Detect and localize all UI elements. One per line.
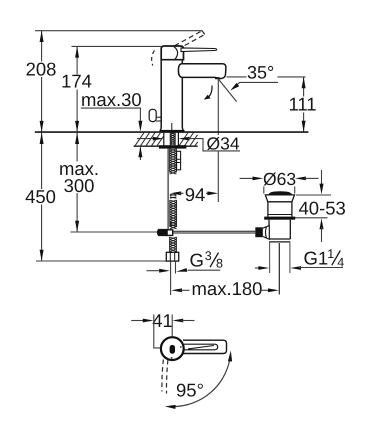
- svg-text:Ø63: Ø63: [263, 169, 296, 189]
- flexible hose braid lower: [170, 237, 177, 254]
- wire 41 right extension: [171, 315, 173, 337]
- top view rotated spout dashed: [162, 360, 163, 392]
- faucet base flange: [160, 130, 185, 132]
- svg-text:max.30: max.30: [81, 89, 142, 110]
- pull rod thread marks above junction: [170, 222, 176, 226]
- dimension 40-53 top arrow: [321, 170, 323, 186]
- svg-text:450: 450: [25, 186, 56, 207]
- dimension G3/8 arrows: [147, 270, 162, 272]
- wire 40-53 lower extension: [293, 217, 327, 219]
- dimension G1 1/4 arrows: [255, 267, 261, 269]
- faucet lever bar: [181, 48, 217, 52]
- node aerator vertical reference line: [217, 79, 219, 135]
- dimension 208 vertical line: [41, 31, 43, 132]
- faucet handle socket curve: [174, 46, 178, 59]
- waste rod knob: [255, 227, 262, 237]
- top view: dimension 41: [131, 320, 145, 322]
- deck top line: [35, 131, 309, 133]
- wire G1 1/4 leader underline: [299, 267, 343, 269]
- faucet shank through deck: [163, 132, 165, 145]
- waste upper body: [267, 202, 269, 217]
- svg-text:41: 41: [152, 310, 173, 331]
- G3/8 connector end: [170, 261, 172, 295]
- dimension 174 vertical line: [76, 47, 78, 132]
- pull rod below deck: [167, 149, 169, 230]
- flexible hose braid upper: [170, 200, 177, 229]
- waste centerline: [278, 243, 280, 295]
- dimension max.30 arrow to deck top: [139, 108, 141, 123]
- washer under deck: [159, 145, 187, 148]
- horizontal pop-up rod right segment: [173, 230, 255, 232]
- waste coupling ring: [269, 238, 290, 240]
- faucet spout: [178, 64, 226, 79]
- top view spout: [183, 340, 227, 353]
- svg-text:max.180: max.180: [192, 278, 263, 299]
- pop-up waste: dimension diameter 63: [240, 177, 255, 179]
- waste lower flange: [264, 217, 295, 220]
- dimension max.30 leader underline: [81, 107, 141, 109]
- dimension 111 vertical line: [303, 77, 305, 131]
- waste tailpipe: [269, 242, 271, 273]
- faucet pull rod inside body: [171, 123, 173, 130]
- waste flange extension lines: [263, 187, 265, 194]
- deck hatching: [135, 133, 198, 146]
- dimension 95 degree arc: [171, 354, 230, 407]
- svg-text:3: 3: [205, 249, 212, 263]
- top view screw dots: [180, 346, 182, 348]
- svg-text:300: 300: [64, 175, 95, 196]
- rod junction block: [167, 230, 173, 236]
- hose nut: [166, 252, 178, 261]
- svg-text:G1: G1: [304, 248, 329, 269]
- top view cartridge slot: [170, 345, 175, 354]
- waste top flange: [265, 195, 294, 202]
- svg-text:35°: 35°: [247, 63, 274, 83]
- faucet pull rod knob: [149, 109, 156, 121]
- dimension max.30 arrow below deck: [139, 147, 141, 160]
- waste plug dome: [268, 191, 292, 195]
- threaded rod in deck opening: [170, 132, 175, 145]
- svg-text:40-53: 40-53: [299, 198, 346, 219]
- svg-text:208: 208: [26, 59, 57, 80]
- waste rod cone: [262, 226, 269, 240]
- horizontal pop-up rod left segment: [70, 231, 158, 233]
- wire 41 left extension: [154, 315, 161, 348]
- faucet body column: [160, 60, 184, 131]
- wire 35 degree leader underline: [239, 81, 278, 83]
- svg-text:1: 1: [327, 247, 334, 261]
- dimension 94: [170, 191, 181, 195]
- svg-text:111: 111: [288, 94, 316, 115]
- wire spout height reference line: [227, 76, 247, 78]
- dimension arrows diameter 34: [137, 138, 155, 140]
- faucet handle swing dashed arc: [152, 51, 155, 66]
- faucet handle raised dashed lever: [175, 31, 205, 50]
- wire 35 degree jet line: [218, 79, 237, 102]
- svg-text:8: 8: [216, 256, 223, 270]
- rod clamp: [158, 230, 168, 236]
- svg-text:G: G: [190, 250, 204, 271]
- svg-text:Ø34: Ø34: [207, 134, 240, 154]
- top view lever: [184, 344, 218, 350]
- mounting clip: [177, 151, 181, 170]
- dimension max.180: [171, 288, 182, 292]
- svg-text:95°: 95°: [176, 380, 204, 401]
- threaded shank below deck: [170, 149, 177, 175]
- wire 450 bottom reference line: [36, 260, 166, 262]
- wire extension line 174: [72, 45, 162, 47]
- deck bottom line: [134, 145, 198, 147]
- hose collar: [170, 194, 177, 198]
- waste lower body: [268, 220, 270, 239]
- faucet handle cap: [161, 46, 183, 60]
- wire diameter 34 leader: [188, 139, 241, 151]
- wire flange underside extension: [296, 194, 331, 196]
- top view body circle: [161, 337, 184, 360]
- dimension 450 vertical line: [41, 133, 43, 261]
- faucet aerator nub: [215, 77, 221, 79]
- stream curved arrow: [207, 86, 213, 99]
- dimension max.300 vertical line: [76, 133, 78, 232]
- dimension 40-53 bottom arrow: [320, 218, 324, 229]
- svg-text:94: 94: [185, 184, 206, 205]
- wire top extension line 208: [35, 30, 203, 32]
- wire G3/8 leader underline: [188, 269, 221, 271]
